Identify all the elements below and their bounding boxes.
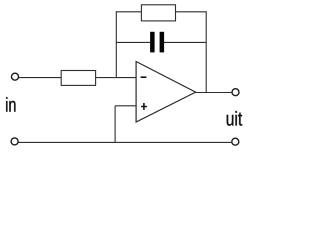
op-amp plus sign <box>141 103 147 110</box>
resistor R2 feedback <box>141 5 175 21</box>
terminal input circle <box>12 73 19 80</box>
wire top-left feedback segment <box>116 11 141 13</box>
label uit <box>227 111 242 126</box>
wire non-inverting tap vertical <box>114 106 116 143</box>
terminal bottom-right circle <box>232 138 239 145</box>
wire non-inverting input horizontal <box>115 105 136 107</box>
terminal output circle <box>232 89 239 96</box>
capacitor C1 left plate <box>150 32 155 53</box>
op-amp minus sign <box>141 76 147 78</box>
resistor R1 input <box>61 71 95 86</box>
label in <box>6 97 15 111</box>
terminal bottom-left circle <box>11 138 18 145</box>
wire output <box>195 92 231 94</box>
wire capacitor right stub <box>164 41 206 43</box>
wire capacitor left stub <box>116 41 150 43</box>
wire bottom rail <box>19 141 232 143</box>
wire right feedback vertical <box>205 11 207 92</box>
op-amp U1 <box>136 62 196 123</box>
wire input to R1 <box>19 77 61 79</box>
wire R1 to op-amp inverting input <box>96 77 136 79</box>
capacitor C1 right plate <box>160 32 165 53</box>
wire left feedback vertical <box>115 11 117 77</box>
wire top-right feedback segment <box>176 11 207 13</box>
